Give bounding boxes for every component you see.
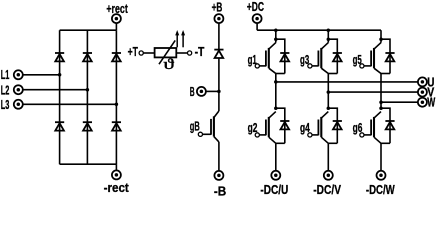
- wire leg2 mid node horizontal bottom: [328, 142, 337, 144]
- wire leg3 collector drop (top): [380, 30, 382, 42]
- svg-text:-DC/U: -DC/U: [260, 183, 288, 197]
- thermistor RT1 body: [155, 48, 177, 57]
- terminal +rect: [112, 14, 121, 23]
- wire g2 gate: [259, 134, 266, 136]
- terminal -rect: [112, 170, 121, 179]
- wire +rect to top rail: [115, 23, 117, 30]
- svg-text:ϑ: ϑ: [163, 57, 175, 73]
- wire L1 to node: [23, 74, 60, 76]
- wire inverter +DC rail: [257, 29, 381, 31]
- pin -T circle: [188, 51, 192, 55]
- gate pin gB circle: [198, 132, 202, 136]
- terminal -B: [214, 171, 223, 180]
- wire g4 gate: [312, 134, 319, 136]
- transistor QB (brake IGBT): [214, 111, 219, 118]
- wire leg3 mid node horizontal top: [381, 73, 390, 75]
- svg-text:-B: -B: [214, 185, 226, 198]
- wire +DC to DC rail: [256, 23, 258, 30]
- node phase W: [379, 100, 383, 104]
- terminal U: [418, 77, 427, 86]
- diode D1 (rectifier top): [55, 52, 64, 54]
- svg-text:+rect: +rect: [106, 2, 128, 16]
- wire g1 gate: [259, 65, 266, 67]
- wire gB gate: [203, 133, 212, 135]
- svg-text:-T: -T: [195, 45, 205, 59]
- wire +T to thermistor: [143, 52, 154, 54]
- wire phase U output: [276, 81, 418, 83]
- node leg1 diode branch bottom: [274, 106, 278, 110]
- diode D3 (rectifier top): [112, 52, 121, 54]
- wire L2 to node: [23, 89, 88, 91]
- wire leg1 collector drop (top): [275, 30, 277, 42]
- diode D6 (rectifier bottom): [112, 121, 121, 123]
- terminal V: [418, 88, 427, 97]
- svg-text:L1: L1: [1, 68, 10, 82]
- node B: [217, 90, 221, 94]
- wire rectifier leg 2: [86, 30, 88, 164]
- wire phase V output: [328, 91, 418, 93]
- wire g5 gate: [364, 65, 371, 67]
- node L2/leg2: [86, 88, 90, 92]
- svg-text:B: B: [190, 85, 195, 99]
- gate pin g4 circle: [308, 133, 312, 137]
- terminal +DC: [253, 14, 262, 23]
- diode D22 (freewheel bottom): [333, 120, 342, 122]
- wire leg3 bottom diode branch: [381, 108, 390, 143]
- wire phase W output: [381, 101, 418, 103]
- node leg3 diode branch top: [379, 37, 383, 41]
- wire leg1 top diode branch: [276, 39, 285, 73]
- wire rectifier top rail: [60, 29, 117, 31]
- node phase V: [327, 90, 331, 94]
- diode D32 (freewheel bottom): [385, 120, 394, 122]
- svg-text:+B: +B: [212, 1, 223, 15]
- node leg1 diode branch top: [274, 37, 278, 41]
- wire leg1 mid node horizontal top: [276, 73, 285, 75]
- diode D12 (freewheel bottom): [280, 120, 289, 122]
- wire leg2 bottom diode branch: [328, 108, 337, 143]
- wire g6 gate: [364, 134, 371, 136]
- diode D11 (freewheel top): [280, 52, 289, 54]
- wire leg3 emitter to -DC terminal: [380, 143, 382, 171]
- node L3/leg3: [115, 103, 119, 107]
- wire leg2 mid node horizontal top: [328, 73, 337, 75]
- diode D5 (rectifier bottom): [83, 121, 92, 123]
- transistor g1 IGBT: [269, 43, 276, 50]
- wire rectifier bottom rail: [60, 163, 117, 165]
- terminal -DC/U: [271, 171, 280, 180]
- terminal W: [418, 98, 427, 107]
- wire brake diode to B node: [218, 58, 220, 91]
- transistor g4 IGBT: [321, 112, 328, 119]
- terminal B: [197, 87, 206, 96]
- wire leg2 emitter to -DC terminal: [327, 143, 329, 171]
- transistor g2 IGBT: [269, 112, 276, 119]
- diode D7 (brake): [214, 49, 223, 51]
- svg-text:-DC/V: -DC/V: [313, 183, 341, 197]
- diode D4 (rectifier bottom): [55, 121, 64, 123]
- wire leg1 mid node horizontal bottom: [276, 142, 285, 144]
- terminal -DC/W: [377, 171, 386, 180]
- node leg3 diode branch bottom: [379, 106, 383, 110]
- wire leg2 top diode branch: [328, 39, 337, 73]
- wire g3 gate: [312, 65, 319, 67]
- terminal -DC/V: [324, 171, 333, 180]
- svg-text:+DC: +DC: [247, 0, 264, 14]
- svg-text:L3: L3: [1, 98, 10, 112]
- terminal L3: [14, 100, 23, 109]
- wire leg3 mid node horizontal bottom: [381, 142, 390, 144]
- wire leg3 phase drop: [380, 74, 382, 109]
- node +DC rail leg2: [327, 28, 331, 32]
- gate pin g3 circle: [308, 64, 312, 68]
- terminal L1: [14, 70, 23, 79]
- node leg2 diode branch top: [327, 37, 331, 41]
- svg-text:L2: L2: [1, 84, 10, 98]
- wire leg2 collector drop (top): [327, 30, 329, 42]
- node leg2 diode branch bottom: [327, 106, 331, 110]
- wire brake emitter to -B: [218, 142, 220, 171]
- transistor g6 IGBT: [374, 112, 381, 119]
- svg-text:gB: gB: [190, 120, 200, 134]
- node L1/leg1: [58, 73, 62, 77]
- wire leg1 phase drop: [275, 74, 277, 109]
- diode D2 (rectifier top): [83, 52, 92, 54]
- wire rectifier leg 3: [115, 30, 117, 164]
- wire B terminal to node: [206, 90, 219, 92]
- wire +B to brake diode: [218, 23, 220, 49]
- wire thermistor to -T: [176, 52, 187, 54]
- gate pin g6 circle: [360, 133, 364, 137]
- wire -rect from bottom rail: [115, 164, 117, 170]
- wire leg1 emitter to -DC terminal: [275, 143, 277, 171]
- diode D21 (freewheel top): [333, 52, 342, 54]
- gate pin g5 circle: [360, 64, 364, 68]
- wire rectifier leg 1: [59, 30, 61, 164]
- wire L3 to node: [23, 103, 117, 105]
- terminal L2: [14, 85, 23, 94]
- svg-text:W: W: [427, 96, 435, 110]
- gate pin g1 circle: [255, 64, 259, 68]
- diode D31 (freewheel top): [385, 52, 394, 54]
- wire leg3 top diode branch: [381, 39, 390, 73]
- thermistor RT1 slash: [159, 40, 175, 64]
- svg-text:-rect: -rect: [104, 181, 130, 195]
- node phase U: [274, 80, 278, 84]
- svg-text:-DC/W: -DC/W: [366, 183, 395, 197]
- terminal +B: [214, 14, 223, 23]
- wire B node to brake IGBT collector: [218, 91, 220, 111]
- node +DC rail leg1: [274, 28, 278, 32]
- wire leg2 phase drop: [327, 74, 329, 109]
- transistor g3 IGBT: [321, 43, 328, 50]
- svg-text:+T: +T: [128, 45, 139, 59]
- pin +T circle: [139, 51, 143, 55]
- gate pin g2 circle: [255, 133, 259, 137]
- thermistor temperature arrows: [175, 30, 185, 47]
- transistor g5 IGBT: [374, 43, 381, 50]
- wire leg1 bottom diode branch: [276, 108, 285, 143]
